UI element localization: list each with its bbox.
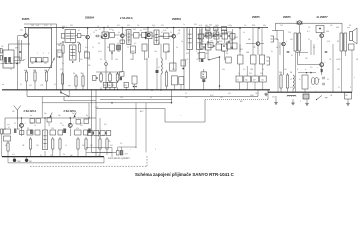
box mixer pad: [14, 57, 20, 63]
svg-text:8k2: 8k2: [58, 52, 61, 54]
wire: [275, 23, 277, 30]
svg-text:455: 455: [133, 29, 136, 31]
node: [122, 27, 124, 29]
wire: [146, 58, 148, 90]
wire: [224, 51, 226, 60]
svg-text:1k: 1k: [73, 73, 75, 75]
node: [111, 102, 113, 104]
node: [59, 56, 61, 58]
svg-text:47k: 47k: [230, 47, 233, 49]
box C det3: [222, 44, 228, 51]
capacitor C5: [97, 35, 98, 38]
svg-text:4u: 4u: [271, 51, 273, 53]
svg-text:5k6: 5k6: [284, 69, 287, 71]
wire: [203, 69, 205, 72]
pot P2: [311, 78, 318, 85]
svg-text:2M2: 2M2: [131, 51, 135, 53]
box C18: [181, 60, 186, 66]
svg-text:0,02: 0,02: [44, 25, 48, 27]
box R21: [236, 76, 243, 82]
node: [306, 72, 307, 73]
box ferrite antenna: [3, 50, 14, 68]
wire main ground bus: [2, 89, 270, 91]
svg-text:100: 100: [279, 72, 282, 74]
svg-text:8: 8: [350, 87, 351, 89]
transistor T6: [172, 34, 176, 38]
box Cb4: [35, 130, 40, 135]
svg-text:220: 220: [172, 69, 175, 71]
node: [109, 89, 110, 90]
box C8: [199, 53, 205, 59]
box fuse: [303, 94, 309, 99]
wire: [86, 147, 112, 149]
wire: [276, 30, 278, 40]
wire: [124, 34, 127, 36]
wire: [144, 51, 146, 60]
svg-text:1: 1: [37, 53, 38, 55]
svg-text:k7: k7: [99, 29, 101, 31]
wire: [109, 72, 111, 74]
wire: [79, 54, 81, 62]
svg-text:4k7: 4k7: [24, 70, 27, 72]
wire: [274, 38, 278, 40]
box C IF1: [110, 44, 115, 51]
svg-text:5p: 5p: [181, 41, 183, 43]
node: [96, 77, 98, 79]
wire: [98, 35, 102, 37]
svg-text:220: 220: [120, 97, 123, 99]
svg-text:5k6: 5k6: [81, 73, 84, 75]
wire bottom band rail: [5, 117, 96, 119]
resistor R6: [75, 74, 77, 88]
resistor R26: [286, 73, 288, 90]
svg-text:47: 47: [158, 67, 160, 69]
box det grid: [227, 43, 232, 49]
node: [126, 89, 127, 90]
wire bottom ground bus: [2, 156, 104, 158]
svg-text:13: 13: [10, 69, 12, 71]
node: [70, 117, 71, 118]
box Cb3: [27, 130, 33, 135]
capacitor C13: [287, 51, 290, 52]
wire: [8, 44, 10, 50]
wire: [26, 90, 28, 96]
IF transformer TR1: [65, 30, 76, 43]
svg-text:5p6: 5p6: [58, 115, 61, 117]
wire: [158, 36, 172, 38]
svg-text:0,25: 0,25: [327, 41, 330, 43]
svg-text:0,1: 0,1: [112, 30, 114, 32]
transistor T10: [320, 63, 324, 67]
svg-text:15: 15: [127, 47, 129, 49]
svg-text:5k: 5k: [262, 69, 264, 71]
wire: [70, 118, 72, 124]
ground R1: [274, 101, 278, 104]
svg-text:3k9: 3k9: [145, 59, 148, 61]
transistor T3: [104, 34, 107, 37]
svg-text:1n: 1n: [98, 155, 100, 157]
svg-text:9: 9: [155, 149, 156, 151]
node: [65, 156, 66, 157]
box det grid: [222, 33, 228, 39]
wire long drop 2: [91, 90, 93, 153]
resistor R31: [29, 137, 31, 151]
wire: [219, 57, 221, 90]
wire: [227, 31, 232, 33]
svg-text:2k: 2k: [63, 154, 65, 156]
svg-text:1n: 1n: [230, 27, 232, 29]
wire: [219, 33, 222, 35]
svg-text:0,5: 0,5: [243, 69, 245, 71]
wire to battery: [92, 152, 117, 154]
svg-text:6k8: 6k8: [336, 27, 339, 29]
node: [77, 156, 78, 157]
svg-text:47: 47: [338, 87, 340, 89]
node: [135, 86, 137, 88]
svg-text:56: 56: [48, 125, 50, 127]
svg-text:6k: 6k: [140, 30, 142, 32]
svg-text:56k: 56k: [108, 85, 111, 87]
svg-text:5p: 5p: [48, 123, 50, 125]
svg-text:56: 56: [170, 32, 172, 34]
wire: [113, 87, 115, 89]
wire: [44, 118, 46, 130]
wire: [347, 99, 349, 102]
svg-text:1k: 1k: [34, 125, 36, 127]
svg-text:470: 470: [80, 125, 83, 127]
svg-text:osc: osc: [23, 59, 26, 61]
svg-text:1k: 1k: [97, 26, 99, 28]
box edge trim: [0, 49, 2, 54]
box det grid: [200, 44, 206, 49]
box fm grid: [36, 119, 41, 124]
svg-text:47: 47: [78, 30, 80, 32]
capacitor C14: [325, 51, 328, 52]
svg-text:a: a: [42, 84, 43, 86]
box C det: [222, 30, 227, 34]
wire output supply: [276, 22, 343, 24]
box mixer out: [85, 52, 90, 58]
transistor T12: [20, 123, 24, 127]
wire: [87, 39, 89, 90]
box bias T4: [120, 40, 124, 43]
wire: [76, 35, 78, 37]
svg-text:455: 455: [127, 25, 130, 27]
wire tuning arrow: [48, 59, 55, 72]
resistor R35: [85, 137, 87, 151]
box Cb12: [106, 131, 110, 136]
wire drop 2: [145, 103, 147, 153]
node: [160, 89, 162, 91]
svg-text:1n5: 1n5: [80, 59, 83, 61]
wire: [109, 81, 111, 82]
IF transformer TR2: [70, 45, 77, 60]
svg-text:82: 82: [125, 30, 127, 32]
box coupling C2: [110, 33, 115, 38]
svg-text:6,8: 6,8: [104, 124, 107, 126]
svg-text:100: 100: [246, 52, 249, 54]
node: [319, 28, 321, 30]
wire: [171, 90, 173, 103]
coil L1a: [4, 57, 7, 63]
box det grid: [230, 34, 235, 40]
wire: [332, 44, 334, 92]
svg-text:47: 47: [8, 127, 10, 129]
wire: [254, 64, 256, 76]
node: [95, 156, 96, 157]
wire: [7, 153, 9, 157]
diode D14: [201, 59, 204, 62]
svg-text:9p: 9p: [30, 115, 32, 117]
wire: [226, 41, 228, 43]
box det grid: [216, 44, 222, 50]
svg-text:6k8: 6k8: [58, 45, 61, 47]
svg-text:47: 47: [161, 32, 163, 34]
svg-text:1k8: 1k8: [130, 59, 133, 61]
svg-text:3k3: 3k3: [107, 47, 110, 49]
wire AVC rail: [27, 96, 258, 98]
wire bus step: [267, 90, 269, 92]
svg-text:0,05: 0,05: [219, 41, 222, 43]
wire: [99, 151, 101, 157]
box fm grid: [76, 120, 81, 125]
wire: [198, 50, 200, 63]
svg-text:th: th: [305, 68, 306, 71]
wire: [26, 157, 28, 159]
diode bias D6: [321, 69, 323, 72]
svg-text:0,05: 0,05: [234, 37, 238, 39]
wire output stage ground bus: [268, 91, 352, 93]
node: [223, 45, 225, 47]
IF transformer TR9: [43, 130, 48, 150]
wire dotted link: [205, 99, 268, 101]
svg-text:Schéma zapojení přijímače SANY: Schéma zapojení přijímače SANYO RTR-1041…: [135, 172, 235, 177]
svg-text:1k: 1k: [65, 145, 67, 147]
svg-text:2k2: 2k2: [104, 85, 107, 87]
node: [133, 86, 135, 88]
node: [88, 117, 89, 118]
ground AF: [264, 93, 268, 96]
box output jack: [349, 44, 355, 50]
wire: [272, 30, 284, 32]
wire: [63, 97, 65, 101]
jack J2: [271, 36, 274, 42]
svg-text:2k2: 2k2: [276, 47, 279, 49]
svg-text:b: b: [25, 123, 26, 125]
coil L4: [287, 95, 296, 96]
wire: [321, 38, 323, 63]
svg-text:10k: 10k: [115, 59, 118, 61]
node: [72, 61, 74, 63]
box C17: [170, 63, 177, 71]
wire: [287, 90, 289, 92]
wire: [121, 147, 123, 151]
IF transformer TR6: [197, 28, 203, 50]
wire long drop: [95, 90, 97, 157]
wire: [111, 51, 113, 60]
wire: [70, 129, 72, 136]
wire: [62, 86, 64, 90]
coil L2: [161, 58, 162, 74]
wire: [46, 83, 48, 90]
box filter: [172, 76, 178, 85]
svg-text:47k: 47k: [108, 141, 111, 143]
wire: [304, 89, 306, 92]
svg-text:82: 82: [107, 26, 109, 28]
wire: [267, 92, 269, 100]
diode D13: [202, 79, 205, 82]
svg-text:56: 56: [290, 72, 292, 74]
wire: [59, 151, 61, 157]
box Cb9: [88, 131, 93, 136]
svg-text:30: 30: [60, 123, 62, 125]
svg-text:2k2: 2k2: [260, 73, 263, 75]
wire: [160, 35, 164, 37]
wire: [216, 31, 218, 44]
svg-text:2 SA 220 b: 2 SA 220 b: [64, 110, 77, 113]
wire: [7, 157, 9, 163]
svg-text:b: b: [125, 32, 126, 34]
node: [212, 35, 214, 37]
jack J1: [267, 57, 270, 65]
svg-text:5k: 5k: [226, 53, 228, 55]
node: [53, 156, 54, 157]
svg-text:100: 100: [290, 39, 293, 41]
svg-text:150p: 150p: [228, 25, 232, 27]
node: [239, 27, 241, 29]
wire: [321, 33, 323, 34]
wire: [283, 46, 285, 75]
svg-text:50: 50: [150, 97, 152, 99]
box fm grid: [84, 119, 89, 124]
wire: [139, 34, 142, 36]
node: [24, 156, 25, 157]
wire: [169, 35, 172, 37]
box diode D2: [214, 32, 219, 36]
box Cb2: [4, 136, 11, 141]
svg-text:50: 50: [318, 79, 320, 81]
box padder C: [43, 58, 48, 63]
svg-text:4k7: 4k7: [253, 80, 256, 82]
svg-text:82k: 82k: [158, 43, 161, 45]
wire: [156, 73, 158, 90]
wire: [106, 151, 108, 155]
svg-text:4k7: 4k7: [228, 93, 231, 95]
svg-text:68k: 68k: [263, 25, 266, 27]
wire: [180, 85, 182, 90]
svg-text:1k: 1k: [308, 39, 310, 41]
svg-text:0,01: 0,01: [199, 25, 202, 27]
wire: [306, 100, 308, 103]
resistor R33: [59, 137, 61, 151]
node: [219, 85, 221, 87]
svg-text:33k: 33k: [88, 65, 91, 67]
svg-text:2p2: 2p2: [72, 113, 75, 115]
wire: [246, 66, 248, 76]
svg-text:390: 390: [249, 73, 252, 75]
node: [103, 27, 105, 29]
wire: [21, 127, 23, 136]
svg-text:68: 68: [98, 43, 100, 45]
diode D7: [207, 33, 210, 37]
wire: [103, 157, 105, 163]
svg-text:68: 68: [5, 145, 7, 147]
svg-text:12k: 12k: [201, 41, 204, 43]
svg-text:2k: 2k: [117, 43, 119, 45]
wire: [252, 28, 254, 55]
wire dashed AFC up: [146, 155, 148, 166]
lamp M1: [297, 21, 302, 25]
box R23: [252, 76, 259, 82]
svg-text:2 SA 293 A: 2 SA 293 A: [120, 17, 133, 20]
box edge trim2: [0, 56, 2, 61]
wire: [105, 60, 107, 63]
coil L1b: [8, 57, 11, 63]
wire: [340, 51, 342, 92]
svg-text:e: e: [317, 67, 318, 69]
wire: [262, 64, 264, 76]
wire: [62, 55, 64, 90]
box fm grid: [47, 118, 52, 123]
wire: [351, 50, 353, 92]
svg-text:12k: 12k: [196, 59, 199, 61]
svg-text:25: 25: [50, 155, 52, 157]
diode D5: [30, 130, 33, 135]
wire: [17, 128, 19, 130]
wire: [18, 40, 20, 60]
wire: [275, 96, 277, 101]
svg-text:2k: 2k: [178, 33, 180, 35]
box diode D1: [206, 32, 211, 36]
box det grid: [208, 43, 213, 48]
svg-text:56k: 56k: [117, 51, 120, 53]
svg-text:100: 100: [326, 31, 329, 33]
wire: [262, 82, 264, 90]
svg-text:0,04: 0,04: [98, 51, 102, 53]
transformer TR8: [340, 33, 347, 51]
svg-text:27k: 27k: [252, 25, 255, 27]
switch S2 main: [60, 90, 69, 97]
node: [93, 132, 95, 134]
resistor R8: [100, 72, 103, 83]
node: [182, 68, 184, 70]
svg-text:82k: 82k: [240, 49, 243, 51]
electrolytic capacitor C6: [105, 63, 108, 66]
wire: [148, 39, 150, 58]
wire: [147, 28, 149, 33]
box R 56k: [108, 82, 112, 87]
box volume control: [201, 72, 207, 78]
svg-text:330: 330: [70, 25, 73, 27]
wire: [277, 39, 279, 92]
wire: [261, 28, 263, 55]
wire: [1, 134, 3, 157]
box shield T3: [102, 32, 109, 39]
box R22: [244, 76, 251, 82]
svg-text:2x 2SB77: 2x 2SB77: [317, 16, 329, 19]
agc arrow 2: [74, 113, 76, 118]
transistor T13: [68, 123, 72, 127]
svg-text:+: +: [180, 115, 181, 117]
resistor R32: [52, 137, 54, 151]
node: [207, 41, 209, 43]
box edge trim3: [1, 129, 3, 134]
wire: [202, 33, 206, 35]
node: [13, 156, 14, 157]
wire: [87, 28, 89, 35]
box R24: [259, 76, 266, 82]
transistor T4: [121, 34, 125, 38]
